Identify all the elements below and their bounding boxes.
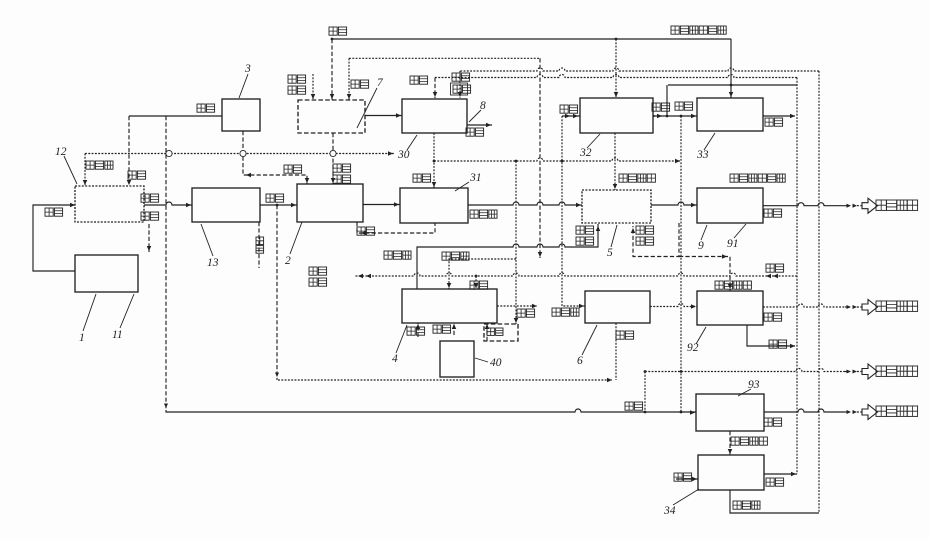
wire hot water collect y=276 bbox=[355, 273, 797, 278]
box 9/91 fuel cell bbox=[697, 188, 763, 223]
text catalytic gas above box5 bbox=[619, 174, 655, 182]
svg-text:33: 33 bbox=[696, 149, 709, 161]
text steam rail vertical bbox=[256, 237, 264, 253]
wire condensate rail x=819 bbox=[818, 71, 820, 513]
svg-text:40: 40 bbox=[490, 357, 502, 369]
svg-text:7: 7 bbox=[377, 77, 384, 89]
text hot steam bbox=[384, 251, 411, 259]
wire steam drop into box12 x=129 bbox=[127, 116, 132, 186]
wire box6 to box92 y=306.5 bbox=[650, 304, 697, 309]
wire hot water out of box92 bbox=[747, 325, 795, 348]
text district hot water 2-line bbox=[309, 267, 327, 286]
wire hot air into box4 x=449 bbox=[447, 259, 516, 289]
wire box7 to box30 y=115.5 bbox=[365, 113, 402, 118]
box 13 bbox=[192, 188, 260, 222]
text steam left of box3 bbox=[197, 104, 215, 112]
text condensate return 2-line bbox=[451, 73, 471, 95]
label 8 bbox=[469, 100, 486, 122]
svg-text:92: 92 bbox=[687, 342, 699, 354]
text hot flue gas 2-line bbox=[333, 164, 351, 183]
wire feed water into box34 bbox=[676, 477, 698, 482]
text output3 steam bbox=[876, 366, 918, 376]
wire low pressure steam box93 to box34 bbox=[728, 431, 733, 455]
text makeup water bbox=[410, 76, 428, 84]
text steam under box4 bbox=[433, 325, 451, 333]
svg-text:4: 4 bbox=[392, 353, 398, 365]
wire condensate from box34 bottom bbox=[730, 490, 819, 513]
label 1 bbox=[79, 294, 96, 344]
box 1/11 storage tank bbox=[75, 255, 138, 292]
label 34 bbox=[663, 489, 699, 517]
wire air line y=58.3 bbox=[349, 57, 540, 59]
svg-text:3: 3 bbox=[244, 63, 251, 75]
wire makeup-water drop into box30 x=435 bbox=[433, 78, 438, 99]
wire rail x=516 bbox=[514, 160, 519, 324]
label 13 bbox=[201, 224, 219, 269]
wire hydrogen from box6 x=616 bbox=[615, 323, 617, 380]
text fermentation gas bbox=[552, 308, 579, 316]
label 40 bbox=[475, 357, 502, 369]
box air (dashed) bbox=[484, 324, 518, 341]
text biogas left input bbox=[45, 208, 63, 216]
label 9 bbox=[698, 225, 707, 252]
wire hot water out of box33 y=116 bbox=[763, 114, 795, 119]
text hot air bbox=[442, 252, 469, 260]
box 33 bbox=[697, 98, 763, 131]
wire rail x=681 bbox=[680, 116, 683, 413]
svg-text:1: 1 bbox=[79, 332, 85, 344]
wire box13 to box2 y=205 bbox=[260, 203, 297, 208]
wire box3-box2 steam link bbox=[243, 131, 309, 184]
text steam small left bbox=[128, 171, 146, 179]
wire hydrogen collect line y=380 bbox=[278, 378, 612, 383]
box 32 bbox=[580, 98, 653, 133]
label 11 bbox=[112, 294, 134, 341]
svg-text:31: 31 bbox=[469, 172, 482, 184]
box 5 separator bbox=[582, 190, 651, 223]
text hydrogen bbox=[616, 331, 634, 339]
wire rail x=562 ferment gas bbox=[561, 116, 585, 308]
wire steam line from box3 y=116 bbox=[129, 115, 222, 117]
box 93 turbine bbox=[696, 394, 764, 431]
wire slag drop x=149 bbox=[147, 224, 152, 252]
wire hot flue gas box7 to box2 x=333 bbox=[331, 133, 336, 184]
wire fuelcell-exhaust drop into box33 x=731 bbox=[729, 39, 734, 98]
label 7 bbox=[357, 77, 384, 128]
text cold hydrogen 2-line bbox=[636, 226, 654, 245]
text boiler flue gas 2-line bbox=[288, 75, 306, 94]
wire condensate drop into box30 x=460 bbox=[458, 71, 463, 98]
box 40 bbox=[440, 341, 474, 377]
wire box93 output y=412 into arrow bbox=[845, 405, 878, 420]
wire box12 to box13 y=205 bbox=[140, 202, 192, 207]
wire box5 to box9 y=205 bbox=[651, 202, 697, 207]
output arrow 2 (power) bbox=[845, 300, 878, 315]
text biogas under box4 bbox=[407, 327, 425, 335]
box 31 bbox=[400, 188, 468, 223]
wire header y=85 bbox=[668, 84, 797, 86]
text hot water y346 bbox=[769, 340, 787, 348]
text cold water above box31 bbox=[413, 174, 431, 182]
text hot water out of box33 bbox=[765, 118, 783, 126]
box 2 reformer bbox=[297, 184, 363, 222]
label 93 bbox=[738, 379, 760, 396]
text power out box9 bbox=[764, 209, 782, 217]
wire cold hydrogen return box9 to box5 bbox=[631, 223, 679, 257]
text hot water y276 bbox=[766, 264, 784, 272]
label 31 bbox=[455, 172, 482, 191]
output arrow 3 (steam) bbox=[845, 364, 878, 379]
wire drop into box12 top x=85 bbox=[83, 154, 88, 187]
box 3 bbox=[222, 99, 260, 131]
text hot water under box2 bbox=[357, 227, 375, 235]
wire box1 to box12 loop bbox=[33, 203, 76, 271]
svg-text:9: 9 bbox=[698, 240, 704, 252]
box 12 digester bbox=[75, 186, 144, 222]
wire bottom steam line y=412 to output bbox=[166, 409, 845, 412]
svg-text:12: 12 bbox=[55, 146, 67, 158]
wire biogas drop into box32 x=616 bbox=[614, 39, 619, 98]
wire condensate line y=153.5 bbox=[85, 151, 394, 156]
label 32 bbox=[579, 134, 600, 159]
text hot hydrogen 2-line bbox=[576, 226, 594, 245]
wire steam rail x=166 bbox=[164, 116, 168, 410]
text drain water bbox=[466, 128, 484, 136]
text condensate water left bbox=[86, 161, 113, 169]
text feed water bbox=[674, 473, 692, 481]
text condensate bottom bbox=[733, 501, 760, 509]
crossing circles on condensate line bbox=[166, 150, 336, 156]
wire flue-gas drop into box7 x=313 bbox=[311, 74, 316, 100]
text steam into box93 bbox=[625, 402, 643, 410]
svg-text:30: 30 bbox=[397, 149, 410, 161]
wire link x=645 bbox=[644, 370, 647, 413]
svg-text:91: 91 bbox=[727, 238, 739, 250]
text vent bbox=[517, 309, 535, 317]
svg-text:13: 13 bbox=[207, 257, 219, 269]
wire air drop into box7 x=349 bbox=[347, 58, 352, 100]
text hot water box34 bbox=[766, 478, 784, 486]
wire steam rail x=278 bbox=[275, 205, 279, 380]
wire cracked gas box32 to box5 x=615 bbox=[613, 133, 618, 190]
label 6 bbox=[577, 325, 597, 367]
text air bbox=[351, 80, 369, 88]
box 4 bbox=[402, 289, 497, 323]
wire box9 to box92 waste heat bbox=[679, 254, 732, 291]
text cold water into box33 bbox=[675, 102, 693, 110]
text slag discharge bbox=[141, 212, 159, 220]
text output2 power bbox=[876, 301, 918, 311]
wire cold water into box32 y=116 bbox=[562, 114, 580, 119]
text biogas box13-2 bbox=[266, 194, 284, 202]
text low pressure steam bbox=[731, 437, 767, 445]
box 7 burner bbox=[298, 100, 365, 133]
label 12 bbox=[55, 146, 77, 184]
wire hot-water rail x=797 bbox=[796, 78, 798, 475]
wire hot water out of box34 bbox=[764, 472, 797, 477]
text biogas top-left bbox=[329, 27, 347, 35]
wire cold water into box33 bbox=[666, 85, 697, 118]
wire biogas drop into box7 x=332 bbox=[330, 39, 335, 100]
wire syngas box31 to box5 y=205 bbox=[468, 202, 582, 207]
text cooling bbox=[470, 281, 488, 289]
text syngas bbox=[470, 210, 497, 218]
svg-text:32: 32 bbox=[579, 147, 592, 159]
text steam mid bbox=[284, 165, 302, 173]
label 4 bbox=[392, 325, 407, 365]
svg-text:11: 11 bbox=[112, 329, 123, 341]
label 91 bbox=[727, 224, 746, 250]
wire hot-air line y=161 bbox=[434, 158, 680, 163]
wire inputs under box4 bbox=[416, 323, 490, 341]
wire box9 output y=205.7 bbox=[763, 203, 845, 206]
label 30 bbox=[397, 135, 417, 161]
wire rail x=540 down bbox=[538, 58, 543, 258]
svg-text:34: 34 bbox=[663, 505, 676, 517]
text air in dashed box bbox=[487, 328, 503, 335]
wire hot water under box2/31 bbox=[357, 222, 435, 235]
wire box30 to box31 x=434 bbox=[432, 133, 437, 188]
svg-text:5: 5 bbox=[607, 247, 613, 259]
text power out box93 bbox=[764, 418, 782, 426]
text hot water out of box32 bbox=[652, 103, 670, 111]
box 92 generator bbox=[697, 291, 763, 325]
label 2 bbox=[285, 222, 302, 267]
text output1 power bbox=[876, 200, 918, 210]
text fuel cell exhaust top bbox=[671, 26, 726, 34]
wire box92 output y=307 bbox=[763, 304, 845, 307]
svg-text:6: 6 bbox=[577, 355, 583, 367]
box 8/30 bbox=[402, 99, 467, 133]
wire box2 to box31 y=204.5 bbox=[363, 202, 400, 207]
wire biogas header y=39 bbox=[331, 38, 731, 41]
text output4 power bbox=[876, 406, 918, 416]
output arrow 1 (power) bbox=[845, 198, 878, 213]
text biogas box12-13 bbox=[141, 194, 159, 202]
label 3 bbox=[239, 63, 251, 98]
svg-text:2: 2 bbox=[285, 255, 291, 267]
box 6 bbox=[585, 291, 650, 323]
wire steam output line y=371.5 bbox=[645, 369, 845, 372]
wire into box93 arrow bbox=[690, 410, 695, 415]
wire makeup-water line y=77.5 bbox=[435, 75, 797, 78]
label 5 bbox=[607, 225, 617, 259]
text power out box92 bbox=[764, 313, 782, 321]
wire drop under box13 bbox=[258, 222, 260, 268]
wire cooling drop into box4 x=476 bbox=[474, 276, 479, 289]
wire hot water out of box32 y=116 bbox=[650, 114, 667, 119]
text waste heat boiler bbox=[715, 281, 751, 289]
text fuel cell exhaust above box9 bbox=[730, 174, 785, 182]
label 92 bbox=[687, 327, 706, 354]
box 34 bbox=[698, 455, 764, 490]
wire condensate-return top y=73 bbox=[460, 68, 819, 71]
wire drain out of box30 bbox=[467, 123, 492, 128]
text cold water into box32 bbox=[560, 105, 578, 113]
wire hot steam box4 to box5 bbox=[417, 224, 600, 289]
label 33 bbox=[696, 133, 715, 161]
wire vent from box4 y=306 bbox=[497, 304, 537, 309]
